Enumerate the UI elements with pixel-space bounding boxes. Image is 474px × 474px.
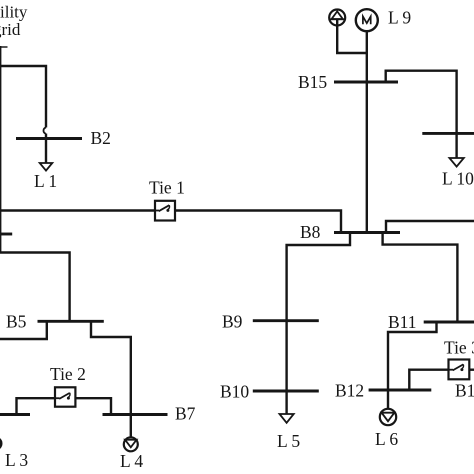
tie switch Tie 3 (near right edge) <box>449 360 470 380</box>
wire: Tie 1 feeder right segment to B8 <box>175 211 341 233</box>
wire: left feeder vertical (clipped at left edge) <box>0 46 1 253</box>
bus L10 (clipped right) <box>422 132 474 135</box>
svg-text:grid: grid <box>0 20 21 39</box>
bus B5 <box>38 320 104 323</box>
wire: B12 up to Tie 3 <box>409 370 448 390</box>
wire: B15 step to L10 <box>386 71 457 158</box>
bus B10 <box>253 390 319 393</box>
bus B11 (clipped right) <box>424 321 474 324</box>
load L3 symbol (clipped at left edge) <box>0 437 3 451</box>
svg-text:B9: B9 <box>222 312 243 332</box>
bus stub left of Tie 2 (clipped) <box>0 413 30 416</box>
svg-text:L 9: L 9 <box>388 8 411 28</box>
wire: B8 down-left to B9 feeder <box>287 233 350 415</box>
wire: Tie 2 right segment to B7 <box>75 398 111 414</box>
svg-text:B2: B2 <box>91 128 111 148</box>
wire: Tie 3 stub to right edge <box>469 369 474 371</box>
svg-text:B13: B13 <box>455 381 474 401</box>
wire: utility to B2 branch horizontal <box>0 66 46 128</box>
bus B12 <box>369 389 432 392</box>
svg-text:B10: B10 <box>220 382 249 402</box>
svg-text:Tie 3: Tie 3 <box>444 338 474 358</box>
svg-text:Tie 2: Tie 2 <box>50 364 86 384</box>
svg-text:B7: B7 <box>175 404 196 424</box>
svg-text:B12: B12 <box>335 381 364 401</box>
svg-text:B8: B8 <box>300 222 321 242</box>
bus B8 <box>334 231 400 234</box>
breaker squiggle above B2 <box>43 128 46 134</box>
tie switch Tie 2 <box>55 387 75 406</box>
bus B7 <box>103 413 168 416</box>
DG symbol top (circle with triangle) <box>329 10 345 26</box>
svg-text:L 10: L 10 <box>442 169 474 189</box>
svg-text:B15: B15 <box>298 72 327 92</box>
bus stub (clipped, left edge) <box>0 233 12 236</box>
utility source stub (clipped) <box>0 46 8 48</box>
load L1 arrow <box>40 163 53 171</box>
wire: Tie 1 feeder left segment <box>0 209 155 211</box>
wire: Tie 2 left segment <box>17 398 56 414</box>
bus B2 <box>16 137 82 140</box>
svg-text:Utility: Utility <box>0 3 28 22</box>
wire: DG to motor junction <box>337 19 367 53</box>
wire: B8 step right off-screen <box>386 221 474 233</box>
svg-text:L 3: L 3 <box>5 450 28 470</box>
svg-text:L 1: L 1 <box>34 171 57 191</box>
label Utility grid (clipped at left edge) <box>0 3 28 40</box>
wire: B11 down-step to B12/L6 <box>388 322 437 409</box>
wire: B8 down-right to B11 feeder <box>383 233 458 323</box>
motor M symbol (load L9) <box>356 9 378 31</box>
tie switch Tie 1 <box>155 201 175 221</box>
load L10 arrow <box>449 158 463 167</box>
svg-text:B11: B11 <box>388 312 417 332</box>
bus B9 <box>253 319 319 322</box>
svg-text:L 6: L 6 <box>375 429 398 449</box>
wire: into bus B2 and down to load <box>45 134 47 164</box>
wire: left feeder to B5 <box>0 253 70 322</box>
wire: B5 left branch (to off-screen left) <box>0 321 47 339</box>
svg-text:Tie 1: Tie 1 <box>149 178 185 198</box>
wire: main vertical M to B8 <box>366 31 368 233</box>
load L4 symbol <box>124 437 138 451</box>
load L6 symbol <box>380 409 396 425</box>
wire: B5 right branch down to B7/L4 <box>91 321 131 437</box>
bus B15 <box>334 81 398 84</box>
svg-text:L 5: L 5 <box>277 431 300 451</box>
load L5 arrow <box>280 414 294 423</box>
svg-text:B5: B5 <box>6 312 27 332</box>
svg-text:L 4: L 4 <box>120 451 143 471</box>
